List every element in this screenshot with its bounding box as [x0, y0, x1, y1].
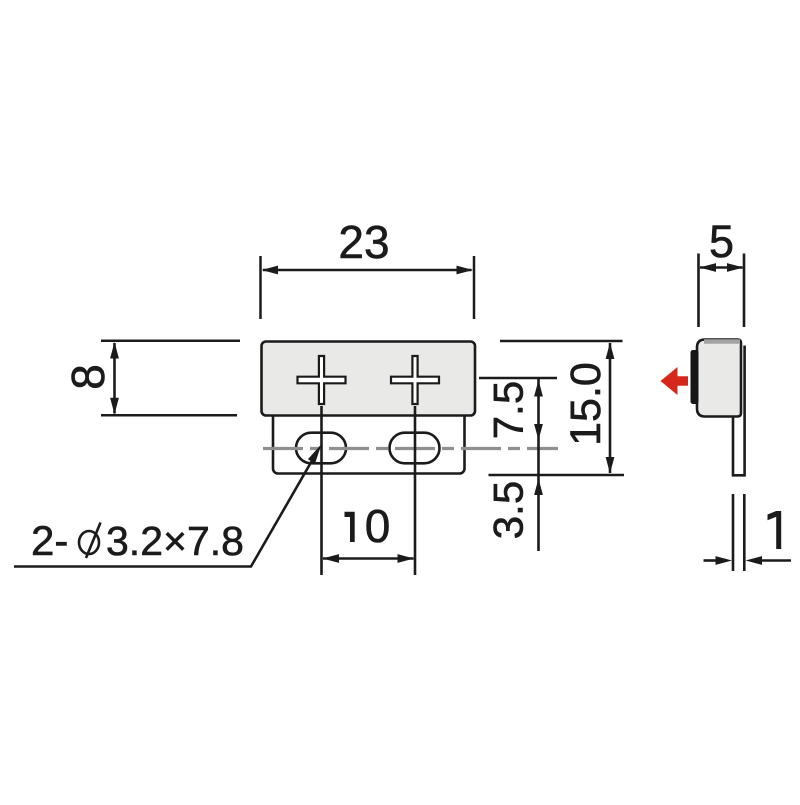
svg-text:7.5: 7.5 — [485, 381, 532, 439]
svg-text:0: 0 — [365, 500, 391, 552]
svg-text:23: 23 — [338, 216, 389, 268]
svg-text:3.5: 3.5 — [485, 481, 532, 539]
svg-text:2-: 2- — [31, 517, 68, 564]
svg-text:5: 5 — [709, 216, 734, 267]
svg-text:3.2×7.8: 3.2×7.8 — [106, 518, 244, 564]
svg-text:15.0: 15.0 — [562, 362, 610, 446]
svg-text:8: 8 — [62, 364, 114, 390]
